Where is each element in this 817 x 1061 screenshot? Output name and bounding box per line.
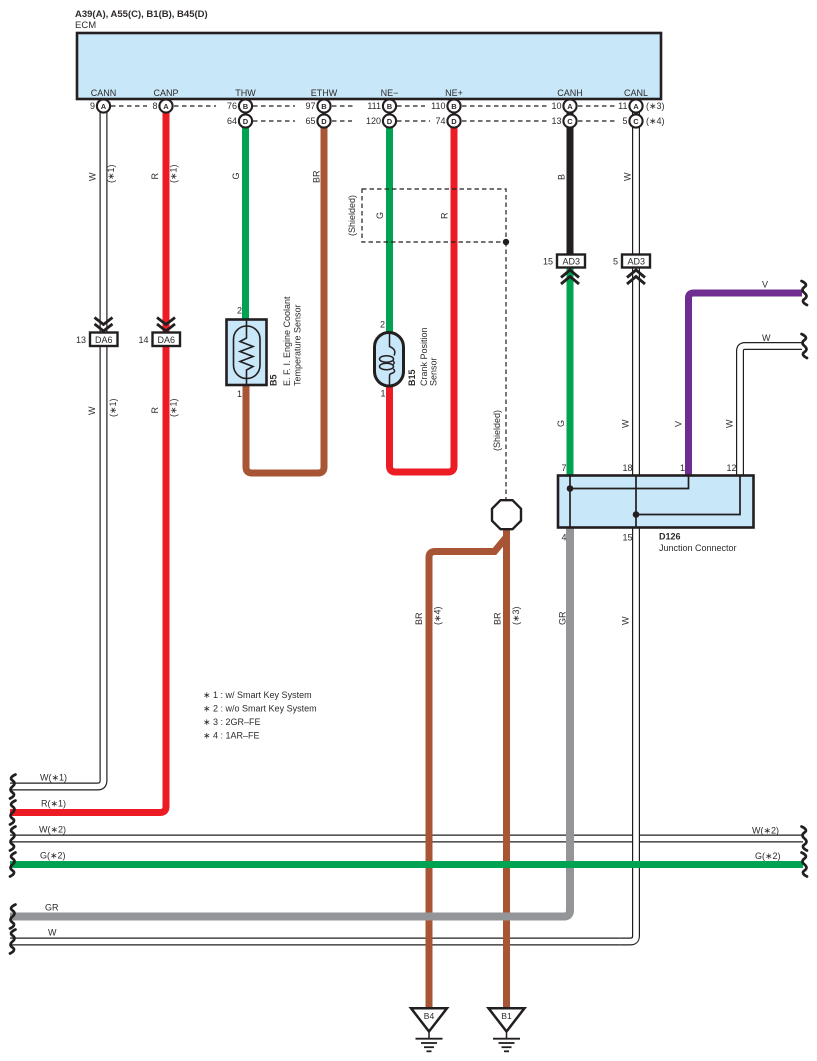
pin C13 CANH: [563, 114, 576, 127]
svg-text:D: D: [321, 117, 327, 126]
svg-text:W: W: [725, 419, 735, 428]
svg-text:A39(A), A55(C), B1(B), B45(D): A39(A), A55(C), B1(B), B45(D): [75, 9, 208, 20]
sensor B5 box: [227, 320, 267, 386]
pin D65 ETHW: [317, 114, 330, 127]
svg-text:W: W: [48, 928, 57, 938]
svg-text:5: 5: [622, 116, 627, 126]
wire BR to ground B1: [503, 528, 510, 1008]
squiggle W: [10, 930, 16, 954]
svg-text:13: 13: [76, 335, 86, 345]
svg-text:B4: B4: [424, 1011, 435, 1021]
pin B97 ETHW: [323, 106, 325, 121]
svg-text:DA6: DA6: [95, 335, 113, 345]
pin A8 CANP: [159, 99, 172, 112]
svg-text:W: W: [87, 406, 97, 415]
wire NE- G: [386, 121, 393, 333]
svg-text:A: A: [163, 102, 169, 111]
svg-text:Junction Connector: Junction Connector: [659, 543, 737, 553]
svg-text:∗ 2 : w/o Smart Key System: ∗ 2 : w/o Smart Key System: [203, 704, 317, 714]
svg-text:B5: B5: [269, 374, 279, 386]
svg-text:BR: BR: [414, 612, 424, 625]
vertical wire labels: [87, 164, 735, 625]
wire NE+ R: [390, 121, 455, 472]
svg-text:G(∗2): G(∗2): [40, 851, 66, 861]
pin D64 THW: [239, 114, 252, 127]
squiggle W(*2)R: [802, 827, 808, 851]
svg-text:NE−: NE−: [381, 88, 399, 98]
junction dot shield: [503, 239, 509, 245]
svg-text:∗ 3 : 2GR–FE: ∗ 3 : 2GR–FE: [203, 717, 261, 727]
svg-text:NE+: NE+: [445, 88, 463, 98]
svg-text:110: 110: [431, 101, 445, 111]
wire CANH B: [567, 106, 574, 255]
svg-text:12: 12: [726, 463, 736, 473]
svg-text:(∗1): (∗1): [106, 164, 116, 183]
ECM box: [77, 33, 661, 99]
svg-text:(∗4): (∗4): [646, 116, 665, 126]
svg-text:GR: GR: [45, 903, 59, 913]
svg-text:Crank Position: Crank Position: [419, 327, 429, 386]
pin D120 NE-: [383, 114, 396, 127]
pin A11 CANL: [635, 106, 637, 121]
svg-text:V: V: [674, 421, 684, 427]
sensor B15 coil element: [380, 333, 395, 385]
wire W(*2) bus: [10, 835, 803, 843]
ground B4: [411, 1008, 447, 1051]
svg-text:9: 9: [90, 101, 95, 111]
junction dot pin18: [633, 511, 640, 518]
svg-text:AD3: AD3: [628, 257, 646, 267]
svg-text:Sensor: Sensor: [429, 357, 439, 386]
svg-text:W: W: [762, 333, 771, 343]
pin letters: [101, 102, 640, 126]
svg-text:5: 5: [613, 257, 618, 267]
svg-text:G: G: [375, 212, 385, 219]
svg-text:1: 1: [237, 389, 242, 399]
svg-text:R: R: [150, 407, 160, 414]
svg-text:C: C: [567, 117, 573, 126]
svg-text:B: B: [243, 102, 249, 111]
svg-text:D: D: [243, 117, 249, 126]
D126 internal bus 18-15: [635, 476, 637, 527]
svg-text:W(∗2): W(∗2): [39, 825, 66, 835]
svg-text:13: 13: [551, 116, 561, 126]
svg-text:∗ 1 : w/ Smart Key System: ∗ 1 : w/ Smart Key System: [203, 690, 312, 700]
ground B1: [489, 1008, 525, 1051]
svg-text:(∗1): (∗1): [169, 164, 179, 183]
svg-text:D: D: [451, 117, 457, 126]
svg-text:G: G: [231, 172, 241, 179]
connector DA6 14 chevron: [157, 318, 175, 332]
svg-text:CANL: CANL: [624, 88, 648, 98]
svg-text:W: W: [621, 616, 631, 625]
svg-text:(∗3): (∗3): [511, 606, 521, 625]
svg-text:BR: BR: [493, 612, 503, 625]
svg-text:(∗4): (∗4): [433, 606, 443, 625]
junction dot pin7: [567, 485, 574, 492]
svg-text:V: V: [762, 280, 768, 290]
svg-text:15: 15: [543, 257, 553, 267]
svg-text:R(∗1): R(∗1): [41, 799, 66, 809]
svg-text:AD3: AD3: [563, 257, 581, 267]
dashed row 2 wire: [253, 120, 618, 122]
svg-text:97: 97: [305, 101, 315, 111]
svg-text:W: W: [623, 172, 633, 181]
svg-text:BR: BR: [312, 170, 322, 183]
svg-text:111: 111: [367, 101, 381, 111]
svg-text:CANH: CANH: [557, 88, 583, 98]
wire CANL W to D126 pin 18: [632, 266, 640, 476]
octagon shield ground: [492, 500, 521, 529]
pin circles row structure: [97, 99, 643, 127]
wire CANL W upper: [632, 106, 640, 255]
svg-text:1: 1: [380, 389, 385, 399]
svg-text:D: D: [387, 117, 393, 126]
squiggle W(*1): [10, 775, 16, 799]
wire CANP R: [10, 106, 166, 813]
svg-text:11: 11: [618, 101, 627, 111]
svg-text:2: 2: [237, 306, 242, 316]
svg-text:CANN: CANN: [91, 88, 117, 98]
svg-text:(∗1): (∗1): [108, 398, 118, 417]
D126 internal bus to pin 1: [570, 476, 689, 489]
connector AD3 15 box: [557, 255, 585, 268]
svg-text:CANP: CANP: [153, 88, 178, 98]
svg-text:64: 64: [227, 116, 237, 126]
shield drain dashed wire: [505, 242, 507, 499]
svg-text:DA6: DA6: [158, 335, 176, 345]
svg-text:74: 74: [435, 116, 445, 126]
junction connector D126 box: [558, 476, 754, 528]
svg-text:B: B: [321, 102, 327, 111]
squiggle R(*1): [10, 801, 16, 825]
svg-text:4: 4: [561, 533, 566, 543]
svg-text:1: 1: [680, 463, 685, 473]
svg-text:7: 7: [561, 463, 566, 473]
svg-text:G: G: [556, 420, 566, 427]
pin A10 CANH: [569, 106, 571, 121]
pin B111 NE-: [388, 106, 390, 121]
svg-text:76: 76: [227, 101, 237, 111]
svg-text:14: 14: [138, 335, 148, 345]
sensor B15 capsule: [375, 333, 404, 387]
svg-text:8: 8: [152, 101, 157, 111]
wire CANN W: [10, 106, 104, 787]
wire ETHW BR: [246, 121, 324, 473]
wire THW G: [242, 121, 249, 320]
svg-text:R: R: [440, 212, 450, 219]
connector DA6 13 box: [90, 333, 118, 347]
squiggle GR: [10, 905, 16, 929]
squiggle V right: [802, 281, 808, 305]
connector DA6 13 chevron: [95, 318, 113, 332]
squiggle W(*2)L: [10, 827, 16, 851]
svg-text:ECM: ECM: [75, 20, 96, 31]
pin B110 NE+: [453, 106, 455, 121]
wire W D126 pin 15 down: [619, 527, 636, 942]
svg-text:(∗1): (∗1): [169, 398, 179, 417]
D126 internal bus 7-4: [569, 476, 571, 527]
connector AD3 5 chevron: [627, 270, 645, 284]
wire W bus bottom horizontal: [10, 938, 624, 946]
svg-text:THW: THW: [235, 88, 256, 98]
wire G(*2) bus: [10, 861, 803, 868]
connector AD3 5 box: [622, 255, 650, 268]
pin B76 THW: [244, 106, 246, 121]
connector DA6 14 box: [153, 333, 181, 347]
sensor B5 stadium: [234, 326, 261, 379]
svg-text:(Shielded): (Shielded): [492, 410, 502, 451]
svg-text:A: A: [567, 102, 573, 111]
connector AD3 15 chevron: [561, 270, 579, 284]
pin A9 CANN: [97, 99, 110, 112]
svg-text:10: 10: [551, 101, 561, 111]
svg-text:65: 65: [305, 116, 315, 126]
svg-text:W(∗1): W(∗1): [40, 773, 67, 783]
squiggle W top right: [802, 334, 808, 358]
pin C5 CANL: [629, 114, 642, 127]
svg-text:(Shielded): (Shielded): [347, 195, 357, 236]
svg-text:B: B: [451, 102, 457, 111]
svg-text:120: 120: [366, 116, 381, 126]
wire CANH G below AD3: [567, 266, 574, 476]
pin D74 NE+: [447, 114, 460, 127]
pin numbers: [90, 101, 628, 126]
D126 pin labels: [561, 463, 736, 543]
svg-text:2: 2: [380, 320, 385, 330]
wire W top right: [740, 346, 802, 476]
svg-text:W: W: [88, 172, 98, 181]
svg-text:Temperature Sensor: Temperature Sensor: [293, 304, 303, 386]
svg-text:18: 18: [622, 463, 632, 473]
wire V violet: [689, 293, 803, 476]
squiggle G(*2)L: [10, 853, 16, 877]
svg-text:B: B: [387, 102, 393, 111]
svg-text:C: C: [633, 117, 639, 126]
svg-text:B15: B15: [407, 369, 417, 386]
svg-text:∗ 4 : 1AR–FE: ∗ 4 : 1AR–FE: [203, 731, 260, 741]
svg-text:R: R: [150, 173, 160, 180]
svg-text:GR: GR: [558, 611, 568, 625]
shield dashed box: [362, 189, 506, 242]
svg-text:ETHW: ETHW: [311, 88, 338, 98]
svg-text:A: A: [101, 102, 107, 111]
svg-text:G(∗2): G(∗2): [755, 851, 781, 861]
svg-text:B1: B1: [501, 1011, 512, 1021]
svg-text:15: 15: [622, 533, 632, 543]
svg-text:W(∗2): W(∗2): [752, 826, 779, 836]
svg-text:E. F. I. Engine Coolant: E. F. I. Engine Coolant: [282, 296, 292, 386]
wire GR gray: [10, 527, 570, 917]
sensor B5 resistor element: [240, 320, 253, 385]
wire BR branch to ground B4: [429, 537, 507, 1008]
D126 internal bus to pin 12: [636, 476, 740, 515]
squiggle G(*2)R: [802, 853, 808, 877]
svg-text:A: A: [633, 102, 639, 111]
svg-text:(∗3): (∗3): [646, 101, 665, 111]
svg-text:W: W: [621, 419, 631, 428]
bus labels: [39, 280, 781, 938]
svg-text:B: B: [557, 174, 567, 180]
dashed row 1 wire: [111, 105, 617, 107]
notes: [203, 690, 317, 741]
svg-text:D126: D126: [659, 532, 681, 542]
